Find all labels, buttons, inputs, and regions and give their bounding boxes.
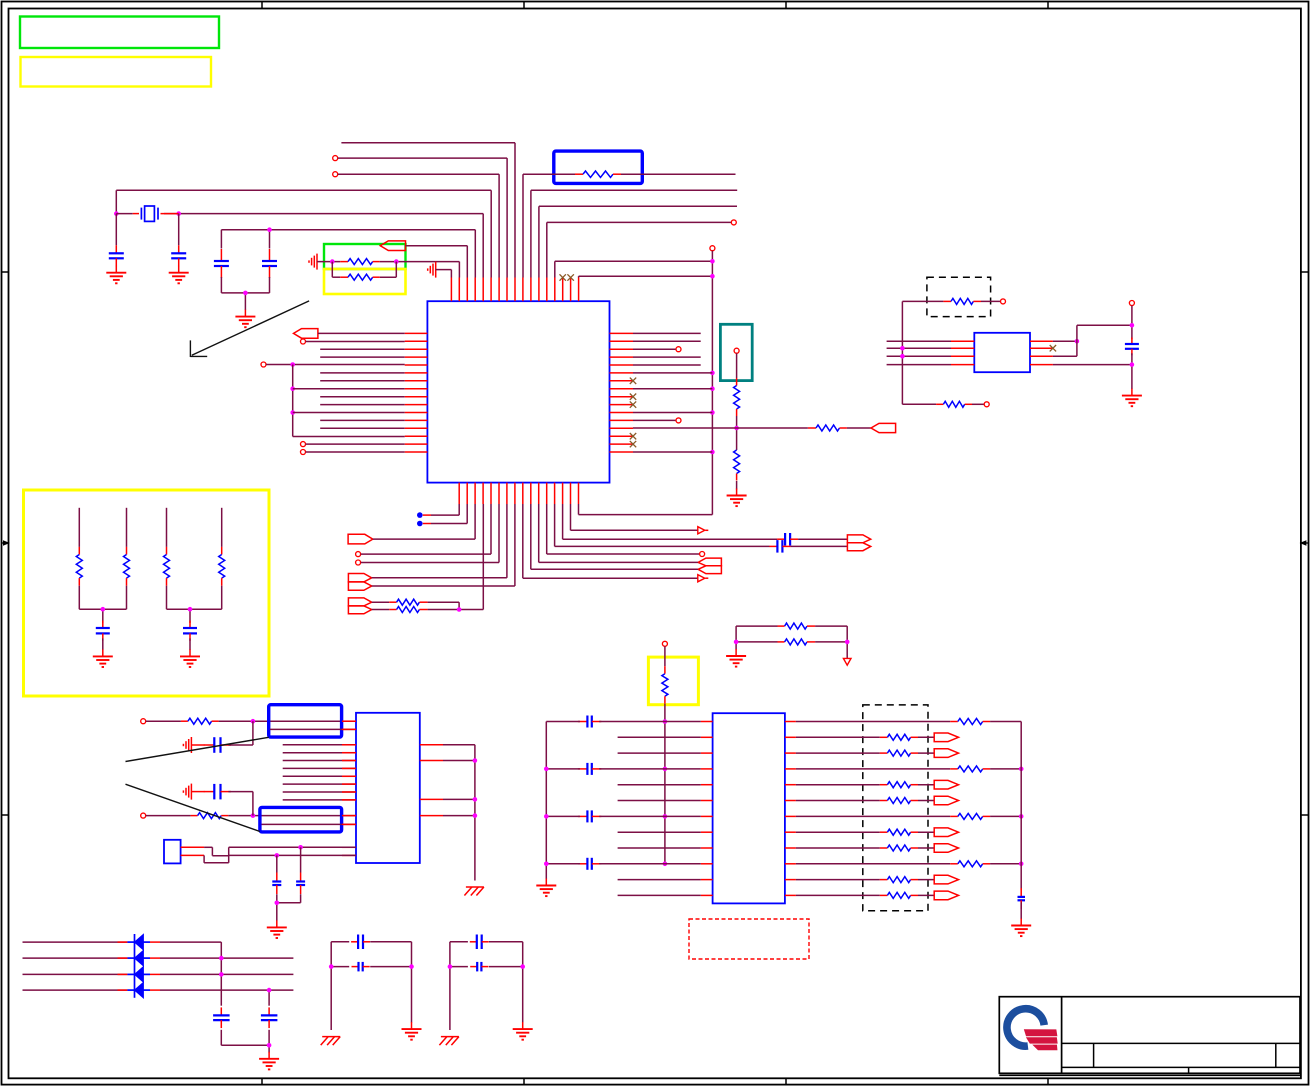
wire Ri12 out <box>918 894 934 896</box>
wire n1 jog down <box>252 721 254 745</box>
wire L6 dangle <box>320 372 405 374</box>
capacitor Cu4_2 <box>578 763 601 775</box>
wire bus3 <box>283 760 356 762</box>
no-connect circle net2 <box>333 156 338 161</box>
wire L12 dangle <box>320 419 405 421</box>
wire n2b <box>228 815 356 817</box>
capacitor C1 <box>109 245 124 266</box>
wire U4 row12 out <box>796 894 880 896</box>
wire cap4 left <box>546 863 580 865</box>
wire div gnd <box>736 481 738 490</box>
junction U3 R3 <box>473 797 478 802</box>
junction V3 <box>710 371 715 376</box>
no-connect circle U2 top <box>1129 301 1134 306</box>
capacitor Cu4_4 <box>578 858 601 870</box>
ic U1 right pins <box>610 333 634 452</box>
wire pull pair2 join <box>167 586 222 623</box>
wire b15 arrow <box>571 504 698 530</box>
diode D1 <box>127 934 150 950</box>
ground C1 <box>106 266 126 284</box>
junction vcc row7 <box>663 814 668 819</box>
capacitor C right rail <box>1018 888 1026 909</box>
wire Rv1 out <box>815 625 847 627</box>
connector double arrow b10b11 <box>698 558 721 574</box>
wire right rail U4 <box>1020 722 1022 890</box>
wire cap2 out <box>228 791 253 793</box>
wire R bottom left <box>902 403 936 405</box>
wire R3 <box>633 347 681 352</box>
wire cap4 right <box>599 863 701 865</box>
border center arrow right <box>1301 541 1309 545</box>
resistor Rv1 <box>778 623 816 629</box>
resistor R green <box>340 259 380 265</box>
wire U4 out row7 <box>796 815 950 817</box>
wire U3 R3 <box>443 798 475 800</box>
connector double arrow out b13b14 <box>847 535 870 551</box>
wire left rail U4 <box>545 722 547 880</box>
wire cap2 right <box>599 768 701 770</box>
capacitor Cbr1b <box>352 962 370 972</box>
junction n2 <box>251 813 256 818</box>
capacitor Cp2 <box>183 621 197 641</box>
wire diode in 1 <box>23 941 128 943</box>
wire capA drop <box>276 855 278 872</box>
resistor Rv2 <box>778 639 816 645</box>
resistor Rdiv1 <box>734 386 740 417</box>
title block row line <box>1062 1042 1300 1044</box>
capacitor C3 <box>214 249 229 278</box>
wire U4 out row1 <box>796 721 950 723</box>
no-connect circle n1 <box>141 719 146 724</box>
wire U3 R4 <box>443 815 475 817</box>
chassis ground br1 <box>321 1037 341 1046</box>
wire b9 arrow <box>523 504 698 578</box>
wire caps join <box>221 1030 269 1053</box>
junction U3 R4 <box>473 813 478 818</box>
resistor Ri2 <box>880 734 918 740</box>
wire U4 row8 stub <box>618 831 701 833</box>
no-connect X right pin15 <box>630 441 636 447</box>
wire U4 row2 stub <box>618 736 701 738</box>
junction R green right <box>394 259 399 264</box>
connector arrow row8 <box>934 828 958 837</box>
wire pull2 top <box>126 508 128 547</box>
resistor Ri11 <box>880 877 918 883</box>
wire U4 row5 out <box>796 784 880 786</box>
connector J1 pins <box>181 847 205 855</box>
connector arrow R13 <box>871 423 896 432</box>
junction br2 L <box>448 964 453 969</box>
arrowhead b15 <box>698 527 709 534</box>
wire p13 <box>547 222 731 277</box>
ground br1 <box>402 1022 422 1040</box>
annotation line 1 <box>126 737 269 761</box>
capacitor C4 <box>262 249 277 278</box>
wire U2 L3 <box>887 355 951 357</box>
connector arrow row2 <box>934 733 958 742</box>
wire b12 circle <box>547 504 700 554</box>
ground right rail <box>1011 919 1031 937</box>
no-connect dot b2 <box>417 521 423 527</box>
wire Ro1 out <box>990 721 1021 723</box>
junction crystal right <box>176 211 181 216</box>
highlight box green R <box>324 244 406 269</box>
wire U2 R4 <box>1053 364 1132 366</box>
wire box1 inner <box>270 728 356 730</box>
junction rail row10 <box>544 862 549 867</box>
capacitor Cn1 <box>204 737 231 753</box>
ic U2 right pins <box>1030 341 1053 364</box>
wire U2 L2 <box>887 347 951 349</box>
wire n2 <box>146 815 191 817</box>
no-connect circle vcc <box>662 641 667 646</box>
wire U4 row11 out <box>796 879 880 881</box>
wire b4 <box>482 504 484 610</box>
junction L8 <box>290 386 295 391</box>
wire net XTAL2 <box>164 214 483 278</box>
wire R12 <box>633 418 681 423</box>
logo quanta red stripe3 <box>1034 1045 1057 1050</box>
resistor Rp1 <box>76 547 82 586</box>
wire L2 <box>306 341 405 343</box>
junction V2 <box>710 274 715 279</box>
resistor R yellow <box>332 262 396 281</box>
junction br2 R <box>520 964 525 969</box>
wire b14 cap <box>563 504 778 539</box>
bridge2 mid wire <box>450 966 523 968</box>
wire L16 <box>306 451 405 453</box>
resistor Rp4 <box>219 547 225 586</box>
wire L bus vertical <box>292 365 294 437</box>
wire cap3 right <box>599 815 701 817</box>
wire U3 R1 <box>443 745 475 881</box>
wire U2 R3 up <box>1053 325 1132 356</box>
junction crystal left <box>114 211 119 216</box>
wire TP1 down <box>736 353 738 385</box>
wire R16 <box>633 451 712 453</box>
resistor R blue box <box>575 171 621 177</box>
wire pull pair1 join <box>79 586 126 623</box>
connector arrow row3 <box>934 749 958 758</box>
junction J1 bot <box>275 853 280 858</box>
highlight box blue U3a <box>269 705 342 737</box>
junction U2 L2 <box>900 346 905 351</box>
ic U1 left pins <box>405 333 428 452</box>
wire J1 p1 jog <box>204 847 229 855</box>
ground osc <box>235 310 255 328</box>
legend box green <box>20 17 219 49</box>
no-connect circle b6 <box>356 560 361 565</box>
diode array bar <box>134 934 136 998</box>
wire n2 jog up <box>252 792 254 816</box>
wire U4 row6 stub <box>618 800 701 802</box>
border center arrow left <box>2 541 9 545</box>
junction diode 2 <box>219 956 224 961</box>
resistor Ri6 <box>880 798 918 804</box>
junction div <box>734 426 739 431</box>
connector double arrow Rpair <box>348 598 371 614</box>
wire capB drop <box>300 847 302 872</box>
wire b1 <box>423 504 459 515</box>
wire U4 row11 stub <box>618 879 701 881</box>
connector double arrow b7b8 <box>348 574 371 591</box>
highlight box blue U3b <box>260 807 342 832</box>
wire R13 net <box>633 427 808 429</box>
wire pull3 top <box>166 508 168 547</box>
highlight box yellow big <box>24 490 270 696</box>
no-connect X right pin14 <box>630 433 636 439</box>
arrowhead b9 <box>698 575 709 582</box>
wire C1 lead <box>115 214 117 246</box>
wire U4 row9 stub <box>618 847 701 849</box>
resistor Rpu <box>943 298 981 304</box>
wire Rpu left <box>902 301 943 404</box>
wire U2 R1 <box>1053 340 1077 342</box>
wire U4 row6 out <box>796 800 880 802</box>
connector arrow b3 <box>348 534 373 544</box>
red dashed annotation box <box>689 919 809 959</box>
junction pair2 <box>188 607 193 612</box>
junction Rpair <box>457 607 462 612</box>
no-connect circle b12 <box>700 552 705 557</box>
wire pair1 gnd <box>102 638 104 650</box>
wire cap1 left <box>546 721 580 723</box>
capacitor Cb13 <box>769 540 790 553</box>
wire b14 out <box>798 538 847 540</box>
wire bus6 <box>283 783 356 785</box>
wire U4 row9 out <box>796 847 880 849</box>
wire b6 <box>361 504 499 563</box>
no-connect circle L16 <box>301 450 306 455</box>
wire Ri2 out <box>918 736 934 738</box>
junction right rail row7 <box>1019 814 1024 819</box>
junction rail row7 <box>544 814 549 819</box>
wire b8 <box>372 504 515 586</box>
ic U1 top pins <box>451 278 578 302</box>
wire L3 dangle <box>320 348 405 350</box>
capacitor C U2 <box>1125 338 1139 356</box>
junction U3 R2 <box>473 758 478 763</box>
junction br1 L <box>329 964 334 969</box>
connector arrow row11 <box>934 875 958 884</box>
connector arrow net p3 <box>380 241 405 251</box>
wire diode in 3 <box>23 973 128 975</box>
legend box yellow <box>21 57 212 87</box>
testpoint circle TP1 <box>734 348 739 353</box>
wire cap1 out <box>228 744 253 746</box>
bar ground cap2 <box>183 784 191 800</box>
no-connect X top pin16 <box>567 274 574 280</box>
wire Ri8 out <box>918 831 934 833</box>
wire pair2 gnd <box>189 638 191 650</box>
wire R8 <box>633 388 712 390</box>
wire U4 row3 out <box>796 752 880 754</box>
ground pair2 <box>180 649 200 667</box>
connector arrow row12 <box>934 891 958 900</box>
wire L13 dangle <box>320 427 405 429</box>
highlight box yellow R <box>324 269 406 294</box>
wire Rtop out <box>621 173 736 175</box>
wire U2 L4 <box>887 364 951 366</box>
junction J1 top <box>298 845 303 850</box>
logo quanta red stripe2 <box>1027 1038 1057 1043</box>
wire L7 dangle <box>320 380 405 382</box>
no-connect circle Rbt <box>984 402 989 407</box>
junction caps join <box>267 1043 272 1048</box>
wire p11 dangle <box>531 190 737 277</box>
ic U3 right pins <box>420 745 443 816</box>
wire U4 out row4 <box>796 768 950 770</box>
ground capAB <box>267 920 287 938</box>
wire U4 row3 stub <box>618 752 701 754</box>
wire R11 <box>633 412 712 414</box>
wire p1 <box>436 270 452 278</box>
resistor Ri3 <box>880 750 918 756</box>
logo quanta red stripe1 <box>1025 1030 1057 1036</box>
wire net top1 <box>341 143 515 278</box>
no-connect X U2 R2 <box>1050 345 1056 351</box>
highlight box blue Rtop <box>554 151 643 183</box>
wire R green right <box>380 262 460 278</box>
wire p12 dangle <box>539 206 737 277</box>
wire vref pair top <box>736 626 847 658</box>
wire bus4 <box>283 767 356 769</box>
wire L15 <box>306 443 405 445</box>
wire vcc top <box>664 646 666 666</box>
wire diode out 1 <box>150 942 221 1006</box>
wire pull4 top <box>221 508 223 547</box>
wire R4 dangle <box>633 356 701 358</box>
capacitor CnA <box>272 873 281 895</box>
wire node V <box>711 251 713 515</box>
bridge1 mid wire <box>331 966 411 968</box>
resistor R13s <box>808 425 847 431</box>
wire b13 out <box>790 545 847 547</box>
wire J1 bot net <box>229 854 356 856</box>
ground U2 <box>1122 389 1142 407</box>
wire vref pair bot <box>736 641 847 643</box>
capacitor C2 <box>171 245 186 266</box>
wire div mid <box>736 416 738 450</box>
capacitor Cp1 <box>96 621 110 641</box>
wire Ri9 out <box>918 847 934 849</box>
no-connect dot b1 <box>417 512 423 518</box>
diode D2 <box>127 950 150 966</box>
wire L8 <box>293 388 405 390</box>
junction vcc row10 <box>663 862 668 867</box>
ic U4 left pins <box>701 722 713 896</box>
ic U3 left pins <box>342 721 356 855</box>
wire R13 out <box>847 427 871 429</box>
wire n1b <box>219 720 356 722</box>
no-connect X top pin15 <box>560 274 566 280</box>
wire L14 <box>293 436 405 438</box>
junction U2 R1 <box>1075 339 1080 344</box>
wire Ro4 out <box>990 863 1021 865</box>
wire U4 row8 out <box>796 831 880 833</box>
ground div <box>727 489 747 507</box>
wire Ri11 out <box>918 879 934 881</box>
wire bus5 <box>283 775 356 777</box>
wire right rail gnd <box>1020 902 1022 919</box>
wire R5 dangle <box>633 364 701 366</box>
junction diode 4 <box>267 988 272 993</box>
junction L5 <box>290 362 295 367</box>
annotation line 2 <box>126 784 260 831</box>
wire L1 <box>318 332 405 334</box>
junction diode 3 <box>219 972 224 977</box>
ic U4 right pins <box>785 722 796 896</box>
wire cap1 right <box>599 721 701 723</box>
ic U4 body <box>713 713 785 903</box>
no-connect circle L5 <box>261 362 266 367</box>
resistor Ro2 <box>950 766 990 772</box>
junction R green left <box>330 259 335 264</box>
wire diode in 2 <box>23 957 128 959</box>
wire b7 <box>372 504 507 578</box>
resistor Ri9 <box>880 845 918 851</box>
resistor Ro1 <box>950 719 990 725</box>
junction L11 <box>290 410 295 415</box>
no-connect X right pin9 <box>630 394 636 400</box>
wire U3 R2 <box>443 760 475 762</box>
ground vref <box>726 649 746 667</box>
wire U2 cap top <box>1131 306 1133 340</box>
title block tick <box>1188 1067 1190 1073</box>
ground diodes <box>259 1052 279 1070</box>
arrow down vref <box>843 658 851 665</box>
no-connect circle node V <box>710 246 715 251</box>
junction V5 <box>710 410 715 415</box>
resistor Ro4 <box>950 861 990 867</box>
wire net OSC <box>221 230 475 278</box>
wire capA out <box>276 894 278 920</box>
connector arrow L1 <box>294 329 318 339</box>
wire R green left <box>317 261 340 263</box>
junction rail row4 <box>544 767 549 772</box>
resistor Ri5 <box>880 782 918 788</box>
wire cap2 left <box>546 768 580 770</box>
resistor Rb1 <box>372 599 459 609</box>
bar ground cap1 <box>183 737 191 753</box>
wire R1 dangle <box>633 332 701 334</box>
bridge2 top wire <box>450 942 523 1030</box>
wire vcc rail <box>664 704 666 864</box>
ground left rail <box>536 879 556 897</box>
no-connect circle p13 <box>731 220 736 225</box>
chassis ground U3 <box>464 887 484 896</box>
ground pair1 <box>93 649 113 667</box>
junction U2 L3 <box>900 354 905 359</box>
wire p14 <box>555 261 713 277</box>
wire bus8 <box>283 799 356 801</box>
no-connect X right pin10 <box>630 401 636 407</box>
resistor Ro3 <box>950 813 990 819</box>
capacitor Cbr2a <box>470 935 489 950</box>
wire b5 <box>361 504 491 554</box>
capacitor Cu4_1 <box>578 716 601 728</box>
wire capB out <box>277 894 301 903</box>
wire diode out 4 <box>150 990 293 1006</box>
resistor Rp3 <box>164 547 170 586</box>
wire bus1 <box>283 744 356 746</box>
diode D3 <box>127 967 150 983</box>
wire diode out 2 <box>150 957 293 959</box>
title block row line2 <box>1062 1066 1300 1068</box>
ic U1 body <box>427 301 609 482</box>
resistor Rdiv2 <box>734 450 740 481</box>
wire cap1 lead <box>191 744 204 746</box>
